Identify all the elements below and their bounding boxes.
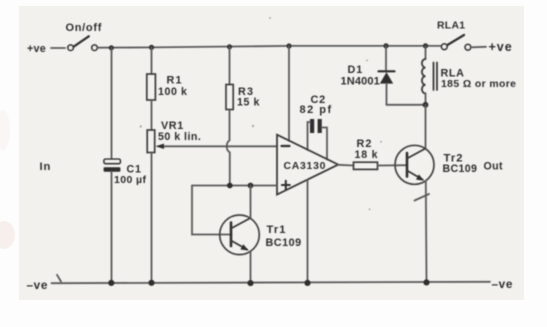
wire Tr2 collector up [425,105,427,149]
wire Tr1 emitter down [250,252,252,283]
node junction relay bottom [423,102,429,108]
wire C2 right lead [322,128,327,160]
wire D1/RLA bottom link [387,104,426,106]
faint pink smudge left edge [0,221,15,249]
wire R3 lower lead with hop over wiper wire [227,110,230,186]
stray specks [140,17,382,210]
node junction top D1 [383,43,388,48]
capacitor C1 [104,159,121,172]
wire bottom rail [52,282,491,283]
wire VR1 wiper to op-amp inverting input [158,145,277,147]
svg-text:Out: Out [484,160,504,172]
svg-text:82 pf: 82 pf [300,104,333,116]
node junction top C1 [109,45,114,50]
svg-text:BC109: BC109 [266,237,302,249]
wire R2 to Tr2 base [378,164,408,166]
capacitor C2 [310,119,322,133]
node junction bottom Tr2 emitter [423,279,429,285]
relay coil RLA [422,46,437,105]
svg-text:RLA: RLA [441,67,465,79]
node junction R3 to + input [227,183,233,189]
wiper arrowhead [156,144,165,149]
svg-text:+ve: +ve [27,43,46,55]
node junction Tr1 collector to + input [248,183,254,189]
node junction top R3 [227,44,232,49]
svg-text:+ve: +ve [489,40,513,54]
svg-text:1N4001: 1N4001 [341,75,380,87]
svg-text:50 k lin.: 50 k lin. [158,131,201,143]
stray tick near -ve [57,275,61,282]
node junction top RLA [423,43,428,48]
svg-text:15 k: 15 k [237,97,260,109]
svg-text:–ve: –ve [27,278,48,292]
node junction bottom C1 [108,280,114,286]
op-amp non-inverting input mark [282,181,290,189]
svg-text:100 µf: 100 µf [114,174,146,186]
wire op-amp V+ supply [288,46,290,141]
svg-text:100 k: 100 k [158,86,188,98]
wire C1 branch upper [111,48,113,159]
switch RLA1 contacts [442,35,487,50]
svg-text:Tr1: Tr1 [267,224,287,236]
node junction top R1 [149,45,154,50]
svg-text:–ve: –ve [492,277,513,291]
wire non-inverting input line [192,185,277,187]
node junction bottom Tr1 emitter [247,280,253,286]
resistor R2 [354,162,378,169]
wire R1 to VR1 [151,100,153,130]
transistor Tr1 BC109 [220,215,260,255]
node junction bottom op-amp V- [304,280,310,286]
stray slash on Tr2 emitter wire [415,194,430,201]
node junction top op-amp supply [286,43,291,48]
wire op-amp V- pin to bottom rail [307,180,309,283]
resistor R1 [147,74,156,100]
potentiometer VR1 [147,130,155,153]
svg-text:BC109: BC109 [443,163,478,175]
transistor Tr2 BC109 [395,145,434,184]
op-amp U1 CA3130 [277,135,338,195]
wire op-amp output to R2 [338,164,354,167]
diode D1 1N4001 [379,46,395,105]
wire +ve lead-in [51,47,65,49]
wire VR1 bottom lead [151,153,153,283]
wire C2 left lead [308,122,311,150]
wire Tr1 collector up [250,186,252,218]
wire top rail [98,46,442,48]
wire R1 top lead [151,47,153,74]
svg-text:185 Ω or more: 185 Ω or more [441,79,516,90]
svg-text:R1: R1 [167,75,183,87]
node junction bottom VR1 [148,280,154,286]
svg-text:In: In [40,161,52,173]
switch On/off [68,36,97,50]
svg-text:18 k: 18 k [355,149,379,161]
wire Tr2 emitter down [425,181,428,282]
wire R3 top lead [229,47,231,85]
svg-text:D1: D1 [348,64,364,76]
svg-text:On/off: On/off [66,22,103,34]
op-amp inverting input mark [282,145,290,147]
svg-text:RLA1: RLA1 [437,21,465,32]
wire left drop to Tr1 base [192,186,232,235]
wire C1 branch lower [111,172,113,283]
resistor R3 [226,85,233,110]
svg-text:CA3130: CA3130 [284,161,327,172]
